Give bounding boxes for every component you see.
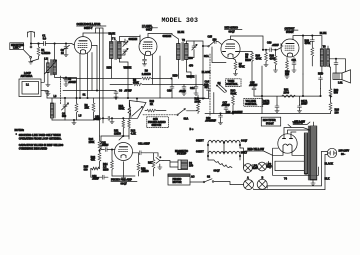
wire antenna to C1 xyxy=(31,43,44,45)
svg-text:6V6GT: 6V6GT xyxy=(286,31,294,34)
svg-text:OTHERWISE INDICATED: OTHERWISE INDICATED xyxy=(19,147,48,150)
label MAGNETIC PICKUP xyxy=(175,150,188,156)
label SHORTING LINK xyxy=(10,43,24,50)
svg-text:680: 680 xyxy=(84,169,89,172)
ground osc top left xyxy=(45,91,49,98)
wire grid feed riser xyxy=(100,136,102,150)
svg-text:SWITCH: SWITCH xyxy=(152,124,162,127)
socket B xyxy=(257,176,267,189)
svg-text:220: 220 xyxy=(285,73,290,76)
wire T2 primary return xyxy=(179,62,192,78)
svg-text:NOTES:: NOTES: xyxy=(15,129,25,132)
bypass cap cluster C11b xyxy=(179,84,186,95)
wire AVC bus xyxy=(63,77,141,79)
wire bottom return xyxy=(254,186,326,190)
notes text block xyxy=(15,129,64,151)
capacitor C12m xyxy=(94,115,132,123)
label LOOP ANTENNA xyxy=(21,72,33,78)
svg-text:580: 580 xyxy=(62,115,67,118)
ground loop return xyxy=(46,94,50,96)
wire pickup leads xyxy=(163,161,178,168)
svg-text:RED: RED xyxy=(107,67,112,70)
capacitor C16 coupling xyxy=(263,42,282,52)
svg-text:C10: C10 xyxy=(167,90,172,93)
label PHONO PRE-AMP 6SQ7 xyxy=(111,179,137,186)
svg-text:BLUE: BLUE xyxy=(178,31,185,34)
resistor R9 diode load xyxy=(239,52,254,85)
wire screen bus xyxy=(110,83,132,85)
label OUTPUT 6V6GT xyxy=(285,27,299,34)
antenna ANT xyxy=(28,32,35,44)
tube U3 internals xyxy=(223,44,239,57)
wire pot top xyxy=(136,98,138,101)
cathode resistor R20 xyxy=(285,58,290,79)
svg-text:OPERATING FROM LOOP ANTENNA.: OPERATING FROM LOOP ANTENNA. xyxy=(19,137,62,140)
capacitor C24 voice coil xyxy=(334,58,338,73)
tube U4 output envelope xyxy=(281,39,299,57)
resistor R13 horizontal xyxy=(145,100,166,112)
svg-text:4.7MEG: 4.7MEG xyxy=(41,52,50,55)
svg-text:6SB7-Y: 6SB7-Y xyxy=(84,27,93,30)
wire loop outer xyxy=(273,161,319,175)
speaker LS1 xyxy=(333,70,351,85)
svg-text:2700: 2700 xyxy=(284,91,290,94)
pilot lamp LP2 xyxy=(258,162,272,171)
filament string row2 xyxy=(196,150,248,157)
label C18 .00025MF xyxy=(226,111,243,114)
node C3 tap xyxy=(65,43,66,44)
node filter2 xyxy=(330,95,331,96)
wire T2 secondary to detector xyxy=(203,45,208,47)
tube U6 rectifier envelope xyxy=(278,134,297,153)
svg-text:PICKUP: PICKUP xyxy=(177,153,187,156)
svg-text:.1MEG: .1MEG xyxy=(141,170,149,173)
svg-text:WHITE: WHITE xyxy=(187,75,195,78)
svg-text:CONTROL: CONTROL xyxy=(226,83,239,86)
node plate line j1 xyxy=(302,35,303,36)
node grid R19 xyxy=(275,49,276,50)
wire U2 screen down xyxy=(152,55,154,84)
wire heater bus to lamps xyxy=(240,148,244,164)
resistor R22 field 1500 xyxy=(329,88,339,98)
wire loop inner1 xyxy=(275,161,304,170)
svg-text:470K: 470K xyxy=(133,81,139,84)
svg-text:6SQ7: 6SQ7 xyxy=(229,30,236,33)
wire U1 screen stub xyxy=(92,45,98,90)
filament string row1 xyxy=(196,139,248,152)
capacitor C8 cathode bypass xyxy=(142,59,146,66)
svg-text:RED: RED xyxy=(173,75,178,78)
wire U1 plate to T1 xyxy=(83,33,112,39)
resistor R12 volume feed xyxy=(195,95,201,114)
wire S2 left xyxy=(190,181,203,183)
svg-text:C14: C14 xyxy=(190,87,195,90)
svg-text:MEG: MEG xyxy=(103,168,109,171)
svg-text:RED-YELLOW: RED-YELLOW xyxy=(248,148,265,151)
ground C5 xyxy=(64,84,68,86)
pilot lamp LP1 xyxy=(244,164,258,173)
svg-text:MOTOR: MOTOR xyxy=(173,181,182,184)
svg-text:AC: AC xyxy=(191,176,195,179)
svg-text:1MEG: 1MEG xyxy=(114,132,121,135)
capacitor C12 output xyxy=(132,143,150,155)
wire T1 secondary bottom xyxy=(120,62,129,78)
svg-text:22K: 22K xyxy=(85,107,90,110)
IF transformer T2 xyxy=(172,35,203,75)
capacitor C14 tone xyxy=(204,81,211,99)
svg-text:150K: 150K xyxy=(89,141,95,144)
label S1B PHONO-RADIO SWITCH xyxy=(147,117,169,128)
capacitor C17B filter xyxy=(297,100,307,113)
ground below shorting link xyxy=(29,62,33,64)
label RECTIFIER 5Y3GT xyxy=(261,117,280,126)
svg-text:1K: 1K xyxy=(150,103,153,106)
svg-text:150: 150 xyxy=(189,165,194,168)
wire U4 grid xyxy=(281,44,283,47)
svg-text:BLUE: BLUE xyxy=(109,33,116,36)
wire U1 cathode down xyxy=(79,53,81,98)
wire det diode return xyxy=(212,47,226,63)
svg-text:BLACK: BLACK xyxy=(202,71,211,74)
node bus j2 xyxy=(96,90,97,91)
filament 6SQ7 preamp heater xyxy=(208,160,232,172)
capacitor C19 xyxy=(205,114,223,125)
svg-text:470: 470 xyxy=(189,65,194,68)
power transformer T4 xyxy=(284,126,317,181)
wire primary top xyxy=(273,148,306,175)
wire B plus verticals down xyxy=(92,28,103,136)
ground T4 core xyxy=(311,180,315,185)
svg-text:180: 180 xyxy=(335,111,340,114)
resistor R23 divider 180 xyxy=(329,98,340,114)
capacitor C9 bypass xyxy=(114,90,132,100)
wire avc to det xyxy=(172,46,204,84)
dashed gang S1A xyxy=(209,54,211,116)
svg-text:6SQ7: 6SQ7 xyxy=(241,139,248,142)
loop antenna L1 outer turn xyxy=(19,79,41,97)
node osc bus c4 xyxy=(64,97,65,98)
switch shorting link S xyxy=(24,44,32,62)
resistor R6 horizontal xyxy=(142,77,172,80)
AC plug PL1 xyxy=(327,148,336,157)
svg-text:.05MF: .05MF xyxy=(102,144,109,147)
tube U5 phono preamp envelope xyxy=(115,143,133,161)
svg-text:GREEN: GREEN xyxy=(129,38,138,41)
capacitor C13b xyxy=(92,175,108,181)
svg-text:.050MF: .050MF xyxy=(68,81,77,84)
svg-text:R17: R17 xyxy=(148,162,153,165)
wire loop top lead xyxy=(41,58,44,82)
bypass cap cluster C12b xyxy=(190,75,198,95)
node trunk xyxy=(261,95,262,96)
ground L2 primary xyxy=(46,85,50,87)
wire rect plate2 xyxy=(291,132,296,135)
svg-text:6SK7: 6SK7 xyxy=(146,29,153,32)
resistor R3 xyxy=(85,98,95,120)
wire L2 bottom to C5 xyxy=(55,75,77,98)
ground osc bottom xyxy=(72,120,76,125)
node plate line j2 xyxy=(312,35,313,36)
trimmer capacitor C3 xyxy=(61,44,70,55)
capacitor C15 xyxy=(249,81,258,96)
wire U2 grid xyxy=(139,35,141,44)
node filter xyxy=(320,95,321,96)
ground R19 xyxy=(273,70,277,72)
svg-text:LINK *: LINK * xyxy=(13,47,20,50)
svg-text:RECTIFIER: RECTIFIER xyxy=(263,119,276,122)
svg-text:47K: 47K xyxy=(91,159,96,162)
wire U5 cathode ground xyxy=(112,162,135,176)
wire S2 right xyxy=(243,164,245,168)
svg-text:A: A xyxy=(247,177,249,180)
svg-text:20MF: 20MF xyxy=(301,103,308,106)
label R6 2.2MEG xyxy=(142,69,151,76)
svg-text:LS1: LS1 xyxy=(338,82,343,85)
resistor chain R23 xyxy=(91,150,101,169)
svg-text:100K: 100K xyxy=(195,100,201,103)
svg-text:60~: 60~ xyxy=(341,153,346,156)
node L2 top xyxy=(54,43,55,44)
tube U1 internals xyxy=(78,41,88,53)
capacitor C22 xyxy=(305,36,315,47)
svg-text:500: 500 xyxy=(334,92,339,95)
svg-text:BLACK: BLACK xyxy=(325,163,334,166)
svg-text:.01MF: .01MF xyxy=(143,143,150,146)
svg-text:470K: 470K xyxy=(305,42,311,45)
switch S4 tone blades xyxy=(216,82,226,92)
svg-text:470K: 470K xyxy=(256,57,262,60)
switch S1A blade xyxy=(177,109,198,121)
svg-text:*: * xyxy=(16,133,17,136)
jack J1 xyxy=(154,153,164,169)
label R19 470K xyxy=(270,55,276,61)
bypass cap cluster C10 xyxy=(167,78,174,98)
node bus j4 xyxy=(127,97,128,98)
svg-text:470K: 470K xyxy=(239,66,245,69)
svg-text:.01MF: .01MF xyxy=(179,90,186,93)
capacitor C17A filter xyxy=(263,100,279,113)
oscillator coil L3 xyxy=(51,98,56,120)
tube U6 internals xyxy=(283,135,293,151)
output transformer T3 xyxy=(320,46,329,67)
wire plug leads xyxy=(321,152,327,190)
node avc r8 junction xyxy=(171,78,172,79)
switch S1A radio-phono xyxy=(204,42,214,58)
svg-text:20MF: 20MF xyxy=(263,103,270,106)
loop antenna L1 inner turn xyxy=(22,82,39,95)
svg-text:500K: 500K xyxy=(231,92,237,95)
svg-text:S1A: S1A xyxy=(184,117,189,120)
svg-text:WHITE: WHITE xyxy=(124,67,132,70)
svg-text:BLUE: BLUE xyxy=(320,32,327,35)
capacitor C1 xyxy=(38,35,47,46)
tube U5 internals xyxy=(119,147,129,158)
dashed link S1B xyxy=(143,114,176,116)
resistor R25 680 xyxy=(84,166,100,178)
resistor R11m xyxy=(114,118,125,137)
capacitor C21 cathode bypass xyxy=(292,58,297,73)
node c12 junction xyxy=(102,118,103,119)
svg-text:ANTENNA: ANTENNA xyxy=(21,75,33,78)
phono motor box xyxy=(168,174,195,185)
svg-text:YELLOW: YELLOW xyxy=(293,121,304,124)
resistor R19 grid leak xyxy=(274,50,277,70)
resistor R1 xyxy=(31,44,51,62)
capacitor C11 grid xyxy=(101,141,115,151)
svg-text:.00025MF: .00025MF xyxy=(205,120,216,123)
wire grid spider xyxy=(119,136,129,140)
resistor R17 xyxy=(148,153,155,176)
svg-text:500K: 500K xyxy=(119,108,125,111)
tube U1 conv/oscillator envelope xyxy=(74,37,91,54)
trimmer capacitor C4 xyxy=(62,98,69,120)
capacitor C5 grid coupling xyxy=(64,77,77,84)
svg-text:5Y3GT: 5Y3GT xyxy=(266,123,274,126)
wire field coil drop xyxy=(329,64,332,88)
label YELLOW rect xyxy=(284,121,310,135)
wire screen riser xyxy=(159,56,161,98)
resistor R16 load xyxy=(137,153,149,176)
wire osc bottom xyxy=(52,119,94,121)
resistor R1C tone pot xyxy=(231,90,237,114)
label 105-125V 60 xyxy=(339,150,350,156)
wire U2 plate to T2 xyxy=(148,34,172,38)
svg-text:GREEN: GREEN xyxy=(163,35,172,38)
svg-text:6SQ7: 6SQ7 xyxy=(214,169,221,172)
resistor R10 xyxy=(256,49,269,67)
wire tone bus xyxy=(198,84,262,113)
svg-text:.01MF: .01MF xyxy=(272,44,279,47)
svg-text:B +: B + xyxy=(190,128,194,131)
label CONV./OSCILLATOR 6SB7-Y xyxy=(77,23,107,30)
resistor R8 horizontal xyxy=(133,79,172,86)
wire U3 plate up xyxy=(231,36,264,50)
svg-text:.006MF: .006MF xyxy=(249,84,258,87)
ground left loop xyxy=(268,167,273,169)
label DET-AUDIO 6SQ7 xyxy=(225,27,243,34)
node R24 R23 xyxy=(99,150,100,151)
wire T3 bottom lead xyxy=(321,66,323,73)
node bus j1 xyxy=(79,97,80,98)
wire filter junction xyxy=(262,74,331,105)
wire R17 top xyxy=(146,152,154,154)
resistor R12m xyxy=(128,118,136,139)
tube U2 internals xyxy=(143,42,153,55)
wire bypass bus xyxy=(63,90,116,92)
svg-text:CONTROL: CONTROL xyxy=(245,103,258,106)
magnetic pickup element xyxy=(178,160,194,170)
oscillator coil L5 xyxy=(75,98,82,120)
wire bus to conv grid xyxy=(66,44,75,46)
node bus j3 xyxy=(115,97,116,98)
svg-text:B: B xyxy=(262,176,264,179)
switch S2 power xyxy=(203,176,214,183)
node filter3 xyxy=(302,95,303,96)
wire T3 secondary to speaker xyxy=(329,59,345,72)
node osc bus mid xyxy=(87,97,88,98)
tube U3 det/audio envelope xyxy=(221,39,240,58)
capacitor C17 xyxy=(222,101,231,113)
resistor R14 grid leak xyxy=(103,150,113,177)
resistor R7 cathode xyxy=(233,58,245,75)
svg-text:MODEL 303: MODEL 303 xyxy=(162,17,199,24)
svg-text:MEG: MEG xyxy=(245,59,251,62)
svg-text:C21: C21 xyxy=(292,59,297,62)
node tone j xyxy=(220,113,221,114)
node tone j3 xyxy=(202,98,203,99)
wire B minus bus xyxy=(47,97,205,99)
svg-text:2.2MEG: 2.2MEG xyxy=(142,73,151,76)
ground below C3 xyxy=(64,55,68,57)
svg-text:6SB7Y: 6SB7Y xyxy=(196,139,204,142)
node tone j2 xyxy=(232,113,233,114)
node antenna junction xyxy=(30,43,31,44)
svg-text:.02MF: .02MF xyxy=(92,178,99,181)
wire yellow xyxy=(293,122,310,125)
svg-text:BLK: BLK xyxy=(325,178,330,181)
tube U4 internals xyxy=(285,44,295,57)
svg-text:6SB7Y: 6SB7Y xyxy=(196,150,204,153)
svg-text:.05MF: .05MF xyxy=(94,118,101,121)
antenna coil L2 xyxy=(45,44,57,85)
wire lamp connections xyxy=(252,161,268,168)
node det plate xyxy=(262,49,263,50)
node osc bus l5 xyxy=(76,97,77,98)
wire secondary bottom yellow xyxy=(313,122,315,126)
wire lamps feed xyxy=(214,182,244,185)
node osc bottom xyxy=(73,119,74,120)
wire T4 secondary top to rect xyxy=(288,130,311,134)
ground preamp bottom xyxy=(121,176,125,180)
resistor chain R24 xyxy=(89,136,101,150)
wire C1 to grid bus xyxy=(46,43,67,45)
label RED-YELLOW xyxy=(240,148,273,155)
dashed gang link xyxy=(60,76,62,104)
capacitor C15 110 xyxy=(208,36,222,45)
socket A xyxy=(244,177,254,190)
wire screen drop xyxy=(302,36,304,74)
svg-text:680: 680 xyxy=(189,57,194,60)
wire U2 cathode to cap xyxy=(144,55,146,59)
svg-text:6.3V: 6.3V xyxy=(253,167,258,170)
filament wires verticals xyxy=(208,146,240,160)
wire T1 sec riser xyxy=(127,78,129,98)
wire U4 plate to T3 xyxy=(293,36,322,49)
wire loop bottom lead xyxy=(41,91,48,94)
node avc det xyxy=(202,45,203,46)
svg-text:4.7K: 4.7K xyxy=(131,132,136,135)
connector speaker plug xyxy=(319,76,323,89)
label TONE CONTROL xyxy=(226,79,242,87)
svg-text:6SQ7: 6SQ7 xyxy=(121,182,128,185)
wire pot wiper down xyxy=(101,135,123,137)
node pot top xyxy=(136,98,137,99)
label VOLUME CONTROL xyxy=(244,99,263,107)
resistor R21 filter xyxy=(281,89,296,98)
tube U2 IF amplifier envelope xyxy=(139,38,157,56)
volume pot R5A wedge xyxy=(119,101,147,119)
node grid xyxy=(111,149,112,150)
svg-text:S1A: S1A xyxy=(204,55,209,58)
IF transformer T1 xyxy=(110,37,141,79)
wire U1 osc grid down xyxy=(87,53,89,98)
label IF AMPL 6SK7 xyxy=(142,25,158,32)
wire B plus bus xyxy=(262,66,331,114)
wire rect heater loop xyxy=(273,151,304,175)
resistor R18 xyxy=(311,47,314,66)
